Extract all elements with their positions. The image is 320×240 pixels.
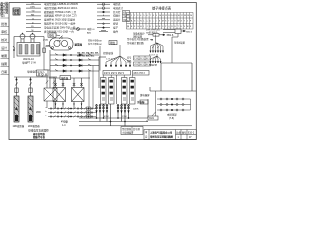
svg-text:插件: 插件	[113, 29, 119, 33]
svg-text:9: 9	[156, 15, 157, 17]
svg-text:1ZKK: 1ZKK	[133, 109, 139, 111]
svg-text:XB1.6: XB1.6	[167, 34, 174, 37]
svg-text:按钮: 按钮	[113, 22, 119, 26]
bar labels	[13, 124, 41, 128]
svg-text:母线电压互感器柜: 母线电压互感器柜	[28, 129, 49, 133]
svg-text:G: G	[32, 18, 34, 20]
relay mini boxes right	[134, 56, 151, 66]
svg-text:1DL 2DL 3DL 4DL 5DL: 1DL 2DL 3DL 4DL 5DL	[77, 52, 100, 55]
right destination labels	[127, 37, 149, 45]
PT transformer unit	[13, 33, 44, 58]
legend mini table	[123, 11, 130, 22]
svg-text:信号灯: 信号灯	[113, 10, 121, 14]
svg-text:5YJ: 5YJ	[140, 64, 144, 66]
svg-text:M: M	[32, 30, 34, 32]
PT right feed wire	[43, 37, 50, 71]
relay bar 2	[109, 78, 115, 105]
svg-text:a: a	[46, 107, 47, 109]
svg-text:1YM: 1YM	[122, 116, 127, 118]
svg-text:避雷器: 避雷器	[74, 43, 83, 47]
resistor XB symbol	[148, 34, 165, 37]
svg-text:8: 8	[153, 15, 154, 17]
svg-text:10: 10	[159, 15, 161, 17]
svg-text:1 2 3 4 5 6 7: 1 2 3 4 5 6 7	[106, 59, 117, 61]
svg-text:4YJ: 4YJ	[134, 64, 138, 66]
svg-text:RN: RN	[31, 15, 35, 17]
svg-text:对: 对	[5, 10, 8, 15]
control room box	[121, 127, 143, 135]
right bottom chains	[156, 91, 191, 116]
CT lead drops	[96, 104, 139, 126]
svg-text:电流互感器 LZZBJ9-10 2500/5: 电流互感器 LZZBJ9-10 2500/5	[44, 2, 79, 6]
svg-text:7: 7	[150, 15, 151, 17]
svg-text:W: W	[178, 21, 180, 23]
binding strip ticks	[1, 18, 10, 75]
svg-text:L: L	[143, 21, 144, 23]
svg-text:5: 5	[143, 15, 144, 17]
PT winding circles	[20, 34, 25, 39]
svg-text:母线: 母线	[49, 33, 55, 37]
svg-text:避雷器组 HY5WZ-17/45 三只: 避雷器组 HY5WZ-17/45 三只	[44, 10, 77, 14]
svg-text:E10-2: E10-2	[188, 132, 195, 134]
bottom-left bus	[14, 76, 57, 96]
relay bar feed stubs	[103, 75, 132, 78]
svg-text:14: 14	[171, 15, 173, 17]
right fan-out tier 2	[150, 54, 161, 63]
terminal table grid	[127, 13, 194, 30]
svg-text:c: c	[153, 21, 154, 23]
binding strip revision marks	[0, 1, 8, 18]
wide relay box	[103, 59, 149, 105]
long bus pair bottom	[79, 99, 192, 126]
svg-text:JD: JD	[31, 26, 34, 28]
svg-text:隔离开关 GN19-10型 一组件: 隔离开关 GN19-10型 一组件	[44, 22, 76, 26]
svg-text:17: 17	[181, 15, 183, 17]
svg-text:KB: KB	[123, 12, 127, 15]
legend column 1	[26, 4, 41, 31]
right tall rectangle	[150, 63, 196, 91]
ladder drop wires	[89, 66, 93, 109]
legend extra row	[70, 28, 86, 31]
svg-text:3YJ: 3YJ	[146, 58, 150, 60]
legend column 2	[97, 3, 110, 32]
svg-text:切换片: 切换片	[113, 14, 121, 18]
terminal table cell text	[127, 13, 192, 28]
svg-text:号1: 号1	[0, 12, 5, 17]
relay bar 1	[101, 78, 107, 105]
resistor bar left 2	[28, 96, 33, 122]
svg-text:11: 11	[162, 15, 164, 17]
svg-text:连接片: 连接片	[113, 18, 121, 22]
svg-text:1YJ: 1YJ	[134, 58, 138, 60]
PT winding box	[17, 43, 40, 57]
X-box 2	[72, 78, 85, 109]
svg-text:20: 20	[190, 15, 192, 17]
svg-text:c: c	[46, 115, 47, 117]
svg-text:18: 18	[184, 15, 186, 17]
svg-text:批准: 批准	[1, 21, 7, 26]
svg-text:接地开关 JN15-10型 带接地: 接地开关 JN15-10型 带接地	[44, 18, 75, 22]
svg-text:电压互感器 JDZX10-10 10/0.1: 电压互感器 JDZX10-10 10/0.1	[44, 6, 78, 10]
svg-text:熔断器组 XRNP-10 0.5A 二只: 熔断器组 XRNP-10 0.5A 二只	[44, 14, 77, 18]
svg-text:审核: 审核	[1, 29, 7, 34]
small X-box bottom-left	[44, 77, 57, 108]
left disconnect wire	[13, 37, 15, 59]
bus label box	[37, 70, 49, 76]
busbar label box	[48, 33, 63, 39]
svg-text:专用: 专用	[13, 11, 19, 16]
svg-text:日期: 日期	[1, 69, 7, 74]
svg-text:J: J	[147, 26, 148, 28]
svg-text:端子排接点表: 端子排接点表	[152, 6, 172, 11]
svg-text:继电器屏: 继电器屏	[140, 93, 150, 97]
svg-text:母线PT 1YH: 母线PT 1YH	[22, 61, 36, 65]
svg-text:2YJ: 2YJ	[140, 58, 144, 60]
chain resistor column	[87, 107, 91, 118]
svg-text:2: 2	[134, 15, 135, 17]
fuse ladder buses	[50, 50, 106, 88]
svg-text:4: 4	[140, 15, 141, 17]
svg-text:电压小: 电压小	[37, 70, 45, 74]
svg-text:4YM: 4YM	[104, 116, 109, 118]
svg-text:1SYJ 2SYJ 3SYJ: 1SYJ 2SYJ 3SYJ	[104, 71, 125, 75]
svg-text:电压表: 电压表	[113, 2, 121, 6]
svg-text:4 5 6 7: 4 5 6 7	[149, 55, 156, 57]
X-box output arrowheads	[55, 104, 83, 106]
note under table	[133, 32, 145, 39]
svg-text:19: 19	[187, 15, 189, 17]
svg-text:16: 16	[178, 15, 180, 17]
small box bottom-left of chains	[140, 100, 158, 121]
right cluster labels	[146, 27, 160, 34]
svg-text:描图: 描图	[1, 61, 7, 66]
svg-text:至电能计量回路: 至电能计量回路	[127, 41, 144, 45]
svg-text:熔断器: 熔断器	[61, 76, 69, 80]
breaker label row	[77, 52, 100, 58]
svg-text:b: b	[46, 111, 47, 113]
svg-text:1YH: 1YH	[43, 39, 48, 42]
svg-text:设计: 设计	[1, 45, 7, 50]
XB junction component	[163, 29, 186, 63]
svg-text:控制母线: 控制母线	[103, 51, 114, 55]
svg-text:W: W	[187, 26, 189, 28]
svg-text:b: b	[150, 21, 151, 23]
resistor bar left 1	[14, 96, 19, 122]
stamp box	[13, 8, 20, 16]
svg-text:L: L	[153, 26, 154, 28]
border frame	[9, 3, 196, 140]
svg-text:15: 15	[174, 15, 176, 17]
right fan-out tier 1	[150, 35, 164, 53]
svg-text:母线电压: 母线电压	[27, 70, 38, 74]
svg-text:3: 3	[137, 15, 138, 17]
signal bus boxes	[88, 39, 117, 56]
svg-text:1: 1	[131, 15, 132, 17]
svg-text:12: 12	[165, 15, 167, 17]
relay bar 3	[122, 78, 128, 105]
svg-text:13: 13	[168, 15, 170, 17]
svg-text:6: 6	[147, 15, 148, 17]
svg-text:校对: 校对	[1, 37, 7, 42]
svg-text:母线: 母线	[110, 41, 116, 45]
fuse box row	[49, 76, 90, 80]
central transformer assembly	[50, 38, 74, 50]
svg-text:n: n	[156, 21, 157, 23]
svg-text:QSN: QSN	[30, 7, 35, 9]
svg-text:2YH: 2YH	[46, 45, 51, 48]
svg-text:图集代号表: 图集代号表	[33, 135, 46, 139]
svg-text:真空断路器 VS1-10型 一台: 真空断路器 VS1-10型 一台	[44, 29, 74, 33]
svg-text:XGN: XGN	[149, 118, 154, 120]
winding strips	[19, 45, 40, 55]
svg-text:4SYJ 5YJ: 4SYJ 5YJ	[133, 71, 145, 75]
svg-text:端子: 端子	[113, 25, 119, 29]
svg-text:4YJ母: 4YJ母	[61, 120, 68, 124]
svg-text:2RD: 2RD	[36, 111, 41, 114]
fuse ladder rungs	[50, 54, 99, 73]
relay bar 4	[130, 78, 136, 105]
svg-text:电流表计: 电流表计	[113, 6, 124, 10]
svg-text:XB1.6: XB1.6	[186, 31, 193, 33]
X-box 1	[53, 78, 66, 109]
svg-text:制图: 制图	[1, 53, 7, 58]
svg-text:至中央信号回路装置: 至中央信号回路装置	[127, 37, 149, 41]
title block	[144, 130, 196, 140]
chain rows bottom-center	[48, 107, 96, 117]
svg-text:(7-8): (7-8)	[169, 117, 174, 120]
svg-text:YD: YD	[32, 11, 35, 13]
fan-out cluster center	[105, 45, 131, 67]
